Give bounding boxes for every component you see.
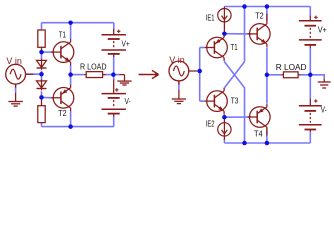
AC source V in (left) (6, 64, 26, 84)
lead R1 bottom (41, 47, 43, 52)
svg-text:T1: T1 (231, 42, 238, 52)
wire node B2 to T2 base (42, 96, 54, 98)
node bottom rail / T2 collector (68, 124, 73, 129)
stem ground mid (right) (323, 79, 325, 82)
node IN (D1-D2-Vin) (39, 72, 44, 77)
wire node B1 to D1 (41, 52, 43, 59)
wire left rail to R1 (41, 23, 43, 30)
wire battery V- to bottom rail (right) (309, 131, 311, 143)
label R LOAD (right) (276, 62, 307, 72)
wire right top rail (224, 6, 310, 8)
wire node IN to D2 (41, 74, 43, 80)
node top rail / T2 collector (265, 4, 270, 9)
lead R LOAD left (84, 74, 86, 76)
lead Vin right (right) (189, 70, 197, 72)
wire T3 emitter down (223, 114, 225, 117)
wire mid node to battery V- (113, 75, 115, 80)
transistor T1 (right, PNP) (205, 34, 228, 60)
arrow between circuits (139, 70, 159, 78)
svg-text:V-: V- (125, 97, 132, 107)
lead battery V- bottom (right) (309, 130, 311, 132)
lead battery V- top (right) (309, 99, 311, 106)
diode D1 (37, 59, 47, 70)
current source IE2 (218, 123, 231, 136)
diode D2 (37, 79, 47, 90)
svg-text:V+: V+ (122, 39, 130, 49)
label V- (right) (321, 107, 327, 115)
label V+ (right) (318, 25, 328, 34)
wire R LOAD to battery node (104, 74, 119, 76)
stem ground mid (left) (124, 75, 126, 81)
lead Vin right (left) (26, 73, 34, 75)
wire X diagonal to T3 collector (224, 62, 244, 89)
wire T4 collector to bottom rail (266, 130, 268, 143)
wire top rail to X column (244, 7, 246, 62)
svg-text:T2: T2 (58, 109, 66, 119)
wire IE2 to bottom rail (223, 140, 225, 144)
resistor R2 (38, 106, 45, 123)
lead IE2 bottom (223, 136, 225, 140)
node V in / input rail (197, 69, 202, 74)
ground below V in (right) (172, 99, 186, 104)
wire Vin bottom (right) (178, 81, 180, 90)
wire node B1 to T1 base (42, 51, 54, 53)
lead Vin bottom (right) (178, 90, 180, 99)
wire input rail to T1 base (200, 47, 205, 49)
node bottom rail / T4 collector (265, 141, 270, 146)
battery V- (right) (299, 99, 322, 129)
label V in (right) (169, 55, 185, 65)
lead T2 collector (right) (266, 14, 268, 22)
lead battery V- bottom (113, 114, 115, 117)
svg-text:V in: V in (6, 56, 22, 66)
svg-text:V+: V+ (318, 25, 328, 34)
wire Vin to node IN (25, 73, 41, 75)
node IE2 / T3 emitter / T4 base (222, 115, 227, 120)
resistor R LOAD (right) (283, 72, 298, 78)
lead battery V+ top (right) (309, 16, 311, 21)
wire R2 to bottom rail (41, 123, 43, 127)
wire T4 emitter to output rail (266, 75, 268, 104)
current source IE1 (218, 9, 231, 22)
label T1 (right) (231, 42, 238, 52)
ground below V in (left) (8, 102, 22, 107)
lead IE1 top (223, 7, 225, 9)
wire output to R LOAD (right) (267, 74, 281, 76)
lead mid rail to ground (left) (119, 74, 124, 76)
wire IE2 node to T4 base (224, 116, 251, 118)
battery V+ (right) (299, 16, 322, 45)
wire left bottom rail (42, 126, 114, 128)
label IE2 (206, 121, 215, 129)
lead Vin bottom stub (left) (15, 84, 17, 88)
lead battery V+ bottom (113, 54, 115, 57)
wire R LOAD to battery (right) (300, 74, 316, 76)
svg-text:T2: T2 (255, 11, 263, 21)
node output (emitters / R LOAD) (68, 72, 73, 77)
wire output to R LOAD (71, 74, 85, 76)
wire top rail to battery V+ (right) (309, 7, 311, 17)
label T3 (right) (231, 96, 239, 106)
node mid rail / batteries (right) (308, 73, 313, 78)
node output rail / R LOAD (right) (265, 73, 270, 78)
node top rail / T1 collector (68, 20, 73, 25)
lead R2 top (41, 97, 43, 105)
wire D1 to node IN (41, 71, 43, 75)
node bottom rail / X column (242, 141, 247, 146)
svg-text:IE2: IE2 (206, 121, 215, 129)
transistor T2 (right, NPN) (248, 21, 270, 47)
label T1 (left) (59, 29, 66, 39)
label IE1 (206, 15, 215, 23)
lead Vin bottom (left) (15, 93, 17, 102)
svg-text:IE1: IE1 (206, 15, 215, 23)
lead Vin bottom stub (right) (178, 81, 180, 85)
svg-text:V-: V- (321, 107, 327, 115)
wire X diagonal T1 to bottom (224, 62, 244, 143)
transistor T3 (right, NPN) (205, 88, 228, 114)
wire top rail to battery V+ (113, 23, 115, 30)
wire input rail to T3 base (200, 100, 205, 102)
wire IE1 node to T2 base (224, 33, 251, 35)
wire T2 collector to top rail (266, 7, 268, 21)
transistor T4 (right, PNP) (248, 104, 270, 130)
label T2 (left) (58, 109, 66, 119)
battery V+ (left) (102, 30, 126, 54)
node B1 (R1-D1-T1 base) (39, 50, 44, 55)
wire T2 emitter to output rail (266, 47, 268, 74)
node top rail / X column (242, 4, 247, 9)
label R LOAD (left) (80, 62, 107, 72)
wire D2 to node B2 (41, 91, 43, 97)
lead IE1 bottom (223, 22, 225, 33)
svg-text:T1: T1 (59, 29, 66, 39)
svg-text:V in: V in (169, 55, 185, 65)
wire T1 emitter to output (70, 65, 72, 75)
lead battery V+ bottom (right) (309, 45, 311, 48)
svg-text:R LOAD: R LOAD (276, 62, 307, 72)
lead IE2 top (223, 118, 225, 123)
AC source V in (right) (169, 61, 189, 81)
wire T1 collector down (223, 61, 225, 62)
ground mid rail (right) (318, 82, 331, 88)
node IE1 / T1 emitter / T2 base (222, 31, 227, 36)
wire battery V+ to mid node (113, 57, 115, 75)
battery V- (left) (102, 88, 126, 113)
node B2 (D2-R2-T2 base) (39, 95, 44, 100)
lead T4 collector (right) (266, 127, 268, 136)
lead R LOAD right (103, 74, 106, 76)
lead R LOAD left (right) (281, 74, 283, 76)
wire T1 emitter up (223, 34, 225, 36)
wire right bottom rail (224, 142, 310, 144)
transistor T1 (left, NPN) (51, 39, 74, 65)
wire T2 emitter to output (70, 75, 72, 85)
label V+ (left) (122, 39, 130, 49)
svg-text:T4: T4 (254, 129, 263, 138)
wire Vin to input rail (196, 70, 200, 72)
label V- (left) (125, 97, 132, 107)
ground mid rail (left) (117, 81, 131, 85)
wire battery V+ to mid node (right) (309, 48, 311, 75)
label T4 (right) (254, 129, 263, 138)
wire Vin bottom (15, 84, 17, 93)
wire mid node to battery V- (right) (309, 75, 311, 99)
wire battery V- to bottom rail (113, 116, 115, 126)
wire input rail (199, 48, 201, 102)
svg-text:R LOAD: R LOAD (80, 62, 107, 72)
wire mid rail to ground (right) (316, 75, 324, 79)
wire left top rail (42, 22, 114, 24)
wire T2 collector to bottom rail (70, 111, 72, 127)
wire T1 collector to top rail (70, 23, 72, 39)
lead battery V+ top (113, 29, 115, 35)
svg-text:T3: T3 (231, 96, 239, 106)
resistor R1 (38, 30, 45, 47)
resistor R LOAD (left) (86, 72, 102, 78)
label V in (left) (6, 56, 22, 66)
lead battery V- top (113, 80, 115, 94)
node mid rail / batteries (111, 72, 116, 77)
lead R LOAD right (right) (298, 74, 300, 76)
label T2 (right) (255, 11, 263, 21)
transistor T2 (left, PNP) (51, 85, 74, 111)
